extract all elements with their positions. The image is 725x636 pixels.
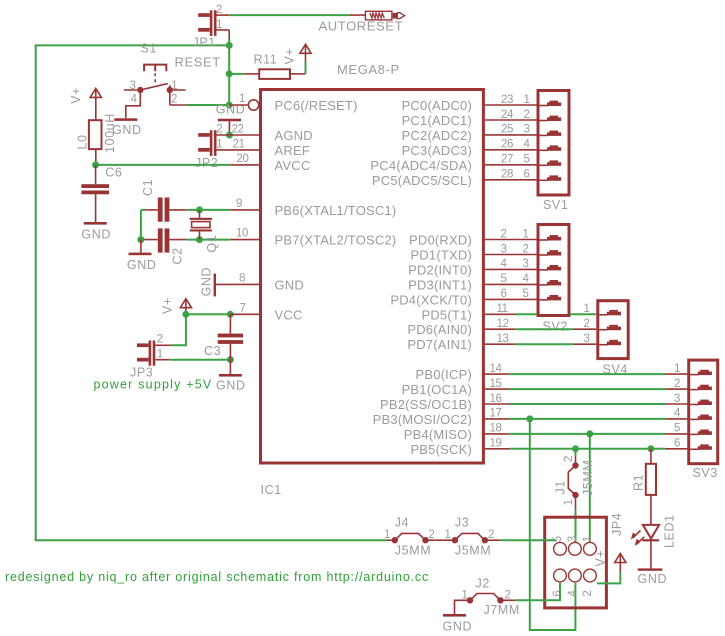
svg-text:6: 6	[524, 169, 530, 181]
svg-text:C1: C1	[141, 179, 155, 196]
node junction PB3/JP4-4	[526, 415, 533, 422]
svg-text:GND: GND	[638, 572, 668, 586]
svg-text:4: 4	[567, 590, 579, 597]
svg-text:4: 4	[131, 94, 138, 106]
LED LED1	[643, 525, 659, 539]
svg-text:V+: V+	[161, 297, 175, 314]
svg-text:PD0(RXD): PD0(RXD)	[409, 233, 472, 248]
svg-text:S1: S1	[141, 42, 158, 56]
svg-text:10: 10	[236, 228, 248, 240]
wire PB3 to JP4 pin4	[530, 419, 576, 630]
svg-text:GND: GND	[81, 227, 111, 241]
svg-text:7: 7	[240, 303, 246, 315]
svg-text:L0: L0	[76, 134, 90, 149]
inductor L0 100uH	[89, 120, 102, 149]
svg-text:12: 12	[497, 318, 509, 330]
svg-text:IC1: IC1	[261, 483, 282, 497]
jumper J1 J5MM	[575, 449, 577, 456]
svg-text:SV1: SV1	[543, 198, 568, 212]
svg-text:2: 2	[157, 334, 163, 346]
svg-text:PD5(T1): PD5(T1)	[421, 307, 472, 322]
svg-text:redesigned by niq_ro after ori: redesigned by niq_ro after original sche…	[5, 570, 429, 584]
svg-text:27: 27	[501, 154, 513, 166]
wires IC1 PB0-PB5 to SV3	[485, 373, 509, 375]
crystal Q1	[199, 210, 201, 218]
svg-text:PD1(TXD): PD1(TXD)	[410, 248, 472, 263]
svg-text:AGND: AGND	[275, 128, 313, 143]
svg-text:PC6(/RESET): PC6(/RESET)	[275, 98, 358, 113]
svg-text:1: 1	[524, 94, 530, 106]
wires IC1 PD0-PD4 to SV2	[485, 239, 537, 241]
svg-text:5: 5	[524, 154, 530, 166]
svg-text:J4: J4	[395, 516, 409, 530]
node junction S1/RESET	[226, 102, 233, 109]
wire XTAL1 net	[187, 209, 230, 211]
svg-text:GND: GND	[275, 277, 305, 292]
svg-text:JP1: JP1	[193, 36, 216, 50]
svg-text:J2: J2	[476, 577, 490, 591]
wire S1 pin2 to RESET node	[169, 90, 171, 105]
svg-text:2: 2	[216, 4, 222, 16]
svg-text:1: 1	[523, 228, 529, 240]
svg-text:PC5(ADC5/SCL): PC5(ADC5/SCL)	[372, 173, 472, 188]
ground (LED1)	[650, 541, 652, 568]
svg-text:J5MM: J5MM	[581, 460, 595, 496]
svg-text:15: 15	[490, 378, 502, 390]
supply V+ (R11)	[300, 44, 311, 53]
node junction R11	[226, 70, 233, 77]
connector JP3	[149, 341, 152, 366]
svg-text:1: 1	[239, 93, 245, 105]
jumper J2 J7MM	[455, 600, 471, 614]
svg-text:14: 14	[490, 363, 503, 375]
svg-text:R11: R11	[254, 53, 278, 67]
svg-text:C3: C3	[204, 344, 221, 358]
supply V+ (VCC)	[180, 299, 191, 308]
svg-text:C6: C6	[105, 166, 122, 180]
svg-text:4: 4	[523, 273, 530, 285]
svg-text:AREF: AREF	[275, 143, 310, 158]
svg-text:2: 2	[582, 591, 594, 597]
svg-text:28: 28	[501, 169, 513, 181]
svg-text:V+: V+	[594, 550, 608, 567]
svg-text:4: 4	[524, 139, 531, 151]
wire JP1 pin1 down to RESET node	[228, 39, 230, 46]
svg-text:PC1(ADC1): PC1(ADC1)	[402, 113, 472, 128]
svg-text:4: 4	[501, 258, 508, 270]
svg-text:1: 1	[171, 80, 177, 92]
svg-text:21: 21	[233, 138, 245, 150]
connector JP1	[210, 10, 213, 36]
node junction XTAL1	[196, 206, 203, 213]
svg-text:PD2(INT0): PD2(INT0)	[408, 262, 472, 277]
svg-text:6: 6	[501, 288, 507, 300]
svg-text:PB4(MISO): PB4(MISO)	[404, 427, 472, 442]
svg-text:26: 26	[501, 139, 513, 151]
svg-text:3: 3	[501, 243, 507, 255]
wires IC1 PC0-PC5 to SV1	[485, 104, 537, 106]
svg-text:1: 1	[563, 500, 575, 506]
svg-text:18: 18	[490, 423, 502, 435]
jumper J4 J5MM	[387, 539, 395, 541]
svg-text:PD7(AIN1): PD7(AIN1)	[407, 337, 472, 352]
svg-text:AUTORESET: AUTORESET	[319, 19, 404, 34]
svg-text:PB2(SS/OC1B): PB2(SS/OC1B)	[380, 397, 472, 412]
supply V+ (JP4 pin2)	[615, 554, 626, 563]
svg-text:PD3(INT1): PD3(INT1)	[408, 277, 472, 292]
svg-text:PB0(ICP): PB0(ICP)	[415, 367, 472, 382]
wire VCC net	[186, 313, 230, 315]
node junction VCC right	[227, 311, 234, 318]
svg-text:1: 1	[384, 529, 390, 541]
svg-text:2: 2	[216, 123, 222, 135]
IC1 pin 1 inverted circle	[248, 100, 258, 110]
wire L0 node to AVCC	[96, 164, 231, 166]
wire S1 pin4 to ground	[126, 90, 141, 118]
wire J1 pin1 to JP4 pin3	[575, 510, 577, 542]
ground (C1 C2)	[140, 240, 142, 253]
svg-text:3: 3	[584, 333, 590, 345]
svg-text:J7MM: J7MM	[484, 603, 520, 617]
svg-text:25: 25	[501, 124, 513, 136]
svg-text:PB5(SCK): PB5(SCK)	[410, 442, 472, 457]
svg-text:PB3(MOSI/OC2): PB3(MOSI/OC2)	[373, 412, 472, 427]
svg-text:VCC: VCC	[275, 307, 303, 322]
svg-text:SV2: SV2	[543, 320, 568, 334]
svg-text:JP4: JP4	[610, 513, 624, 536]
ground (S1)	[114, 118, 137, 121]
svg-text:J5MM: J5MM	[395, 544, 431, 558]
svg-text:4: 4	[674, 408, 681, 420]
svg-text:power supply +5V: power supply +5V	[94, 378, 213, 392]
svg-text:J5MM: J5MM	[455, 544, 491, 558]
svg-text:C2: C2	[171, 247, 185, 264]
wire R11 to V+	[305, 62, 307, 74]
svg-text:3: 3	[523, 258, 529, 270]
svg-text:GND: GND	[443, 620, 473, 634]
node junction L0/C6/AVCC	[92, 161, 99, 168]
wire JP3 pin1 to C3/GND node	[170, 359, 231, 361]
svg-text:J3: J3	[455, 516, 469, 530]
svg-text:J1: J1	[554, 480, 568, 494]
node junction PB5/R1	[647, 445, 654, 452]
svg-text:PC0(ADC0): PC0(ADC0)	[402, 98, 472, 113]
svg-text:16: 16	[490, 393, 502, 405]
resistor R1	[650, 449, 652, 464]
svg-text:PB7(XTAL2/TOSC2): PB7(XTAL2/TOSC2)	[275, 233, 397, 248]
svg-text:1: 1	[584, 303, 590, 315]
op-amp-style IC1 MEGA8-P body	[261, 90, 484, 464]
wire XTAL2 net	[187, 239, 230, 241]
svg-text:13: 13	[497, 333, 509, 345]
ground (C3)	[229, 360, 231, 374]
svg-text:PC4(ADC4/SDA): PC4(ADC4/SDA)	[370, 158, 472, 173]
svg-text:2: 2	[674, 378, 680, 390]
wire PB4 to JP4 pin1	[589, 434, 591, 542]
svg-text:PD4(XCK/T0): PD4(XCK/T0)	[390, 292, 472, 307]
svg-text:6: 6	[552, 591, 564, 597]
svg-text:2: 2	[501, 228, 507, 240]
svg-text:MEGA8-P: MEGA8-P	[337, 62, 400, 77]
S1 contact pads	[137, 87, 143, 93]
svg-text:2: 2	[563, 456, 575, 462]
svg-text:GND: GND	[199, 267, 213, 297]
svg-text:PD6(AIN0): PD6(AIN0)	[407, 322, 472, 337]
wire J3 pin2 to JP4 pin5	[485, 539, 501, 541]
svg-text:3: 3	[524, 124, 530, 136]
node junction XTAL2	[196, 236, 203, 243]
connector SV1	[538, 91, 569, 196]
svg-text:100uH: 100uH	[103, 113, 117, 153]
node junction VCC left	[182, 311, 189, 318]
connector JP2	[210, 130, 213, 156]
capacitor C2	[158, 228, 163, 252]
node junction JP1/RESET	[226, 42, 233, 49]
svg-text:3: 3	[674, 393, 680, 405]
connector JP4	[545, 517, 607, 608]
svg-text:2: 2	[524, 109, 530, 121]
svg-text:3: 3	[567, 536, 579, 542]
svg-text:V+: V+	[283, 48, 297, 65]
connector SV3	[689, 360, 718, 464]
svg-text:JP2: JP2	[195, 156, 218, 170]
svg-text:9: 9	[236, 198, 242, 210]
node junction C2/GND	[137, 236, 144, 243]
node junction C3/GND	[227, 356, 234, 363]
svg-text:PB1(OC1A): PB1(OC1A)	[402, 382, 472, 397]
connector SV4	[598, 301, 628, 359]
wire V+ node to JP3 pin2	[171, 314, 186, 345]
svg-text:3: 3	[130, 80, 136, 92]
svg-text:SV3: SV3	[693, 466, 718, 480]
svg-text:R1: R1	[632, 474, 646, 491]
node junction PB5/J1	[572, 445, 579, 452]
svg-text:2: 2	[171, 94, 177, 106]
svg-text:23: 23	[501, 94, 513, 106]
svg-text:LED1: LED1	[663, 514, 677, 548]
svg-text:24: 24	[501, 109, 514, 121]
svg-text:6: 6	[674, 438, 680, 450]
jumper J3 J5MM	[452, 537, 458, 543]
svg-text:2: 2	[523, 243, 529, 255]
wire junction to R11 node	[228, 45, 230, 74]
svg-text:Q1: Q1	[205, 235, 219, 253]
svg-text:1: 1	[445, 529, 451, 541]
connector SV2	[538, 225, 569, 316]
capacitor C3	[229, 314, 231, 334]
svg-text:1: 1	[674, 363, 680, 375]
svg-text:20: 20	[237, 153, 249, 165]
svg-text:17: 17	[490, 408, 502, 420]
svg-text:19: 19	[490, 438, 502, 450]
svg-text:11: 11	[497, 303, 508, 315]
svg-text:GND: GND	[127, 258, 157, 272]
wire RESET net from JP1 around left side to J4	[36, 45, 387, 540]
wire RESET node to IC1 pin1	[229, 104, 248, 106]
ground (J2)	[443, 614, 466, 617]
svg-text:1: 1	[582, 536, 594, 542]
antenna symbol AUTORESET	[365, 11, 392, 20]
svg-text:1: 1	[157, 348, 163, 360]
svg-text:1: 1	[462, 589, 468, 601]
resistor R11	[229, 73, 244, 75]
svg-text:RESET: RESET	[175, 55, 221, 70]
wire J2 pin2 to JP4 pin6	[500, 599, 515, 601]
svg-text:2: 2	[584, 318, 590, 330]
svg-text:5: 5	[523, 288, 529, 300]
svg-text:22: 22	[232, 123, 244, 135]
svg-text:5: 5	[501, 273, 507, 285]
svg-text:GND: GND	[216, 378, 246, 392]
svg-text:PC2(ADC2): PC2(ADC2)	[402, 128, 472, 143]
svg-text:PC3(ADC3): PC3(ADC3)	[402, 143, 472, 158]
wire JP1 pin2 to AUTORESET	[229, 14, 350, 16]
ground (C6)	[84, 222, 107, 225]
wire R11 node down to S1 node	[228, 74, 230, 105]
wire J4 pin2 to J3 pin1	[426, 539, 455, 541]
svg-text:AVCC: AVCC	[275, 158, 311, 173]
svg-text:8: 8	[239, 273, 245, 285]
svg-text:1: 1	[216, 19, 222, 31]
svg-text:V+: V+	[69, 87, 83, 104]
wires IC1 PD5-PD7 to SV4	[485, 313, 515, 315]
svg-text:5: 5	[674, 423, 680, 435]
node junction PB4/JP4-1	[586, 430, 593, 437]
supply V+ (L0)	[90, 88, 101, 97]
node junction AGND	[226, 132, 233, 139]
svg-text:PB6(XTAL1/TOSC1): PB6(XTAL1/TOSC1)	[275, 203, 397, 218]
svg-text:1: 1	[216, 138, 222, 150]
